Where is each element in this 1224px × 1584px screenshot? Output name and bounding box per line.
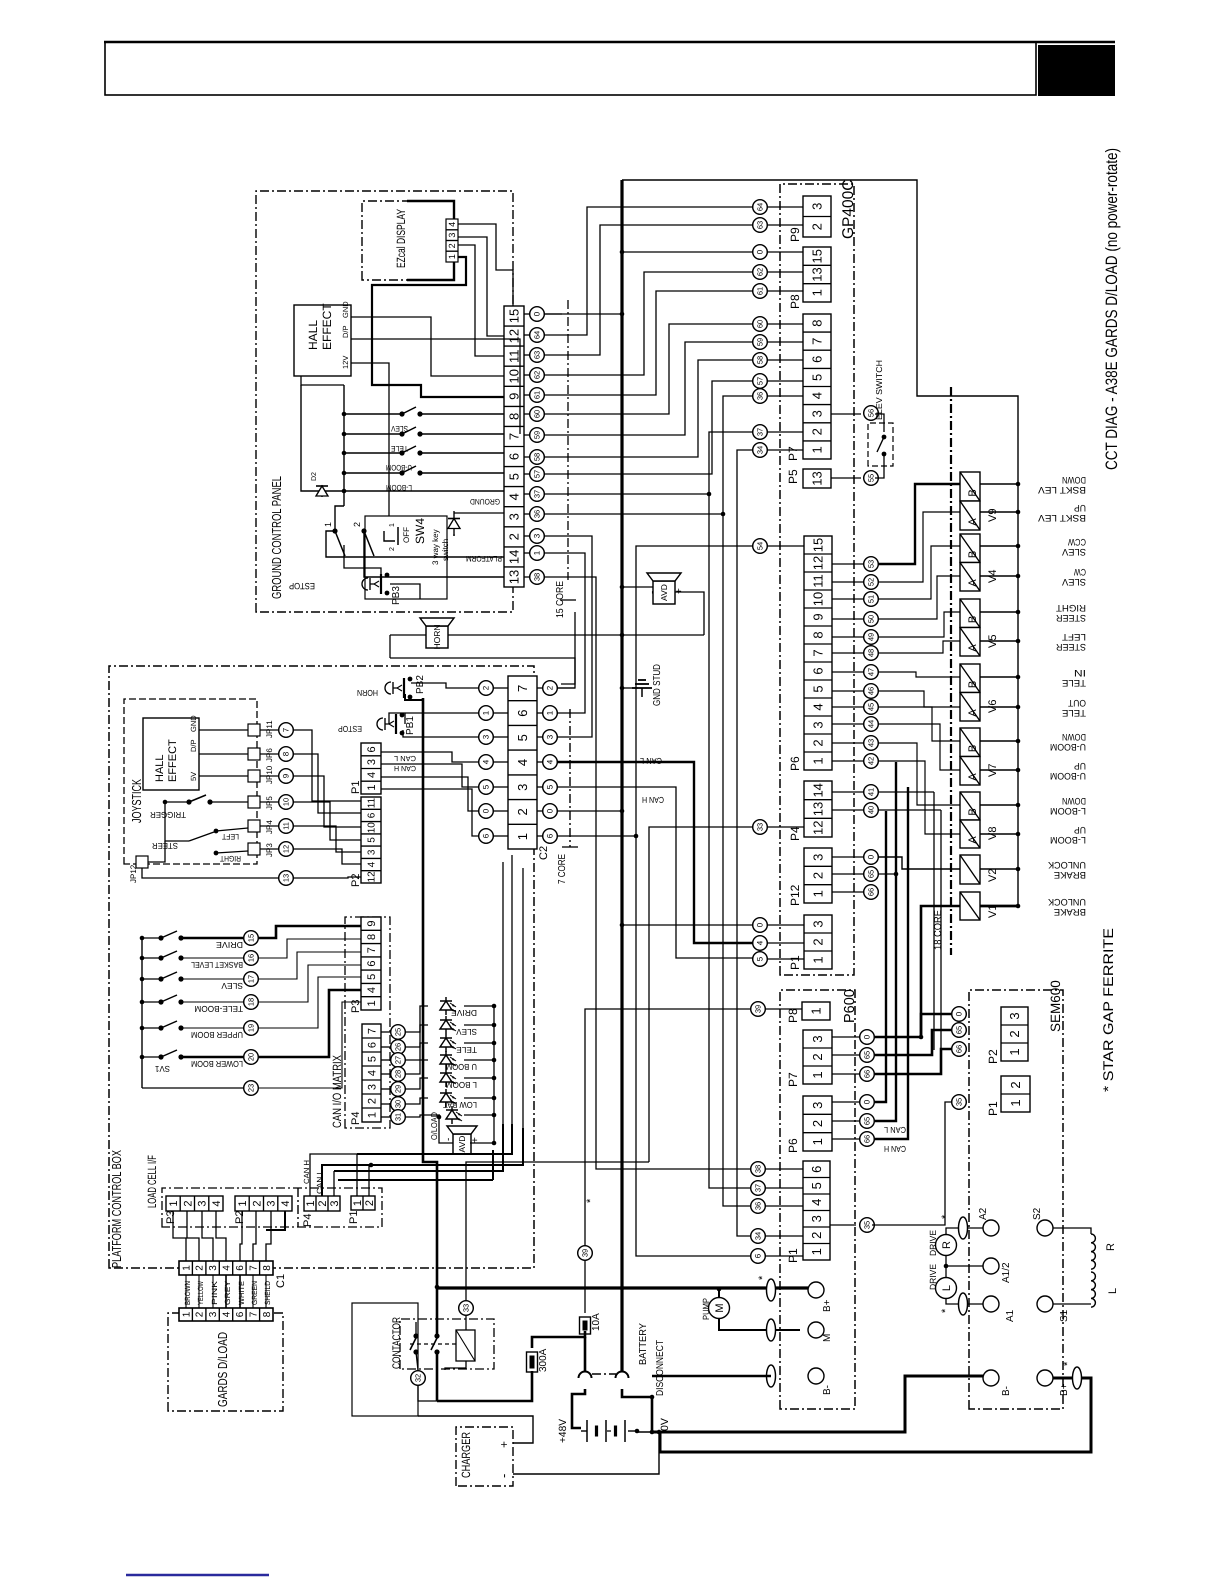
LED bus: [493, 1006, 495, 1143]
brake valve feeds: [879, 857, 960, 869]
svg-text:P1: P1: [986, 1101, 1000, 1116]
svg-text:V9: V9: [987, 509, 999, 522]
svg-text:EFFECT: EFFECT: [320, 303, 334, 350]
svg-text:5: 5: [507, 473, 522, 480]
svg-text:2: 2: [182, 1200, 194, 1206]
svg-text:PLATFORM: PLATFORM: [466, 554, 502, 563]
connector C2: [508, 676, 537, 849]
svg-text:5: 5: [482, 784, 491, 789]
svg-text:2: 2: [447, 243, 457, 248]
svg-text:A2: A2: [978, 1207, 989, 1220]
svg-text:38: 38: [754, 1165, 763, 1173]
estop PB1: [377, 713, 404, 736]
svg-text:4: 4: [366, 987, 378, 993]
svg-text:0: 0: [756, 922, 765, 927]
C1 colour wires: [185, 1275, 187, 1308]
svg-text:B-: B-: [1001, 1386, 1012, 1396]
svg-text:2: 2: [546, 685, 555, 690]
svg-text:4: 4: [211, 1200, 223, 1206]
svg-text:0: 0: [756, 249, 765, 254]
svg-text:TRIGGER: TRIGGER: [150, 810, 186, 820]
svg-text:2: 2: [809, 1232, 824, 1239]
svg-text:CCT DIAG - A38E GARDS D/LOAD (: CCT DIAG - A38E GARDS D/LOAD (no power-r…: [1103, 148, 1121, 470]
svg-text:0: 0: [863, 1034, 872, 1039]
svg-text:CAN H: CAN H: [884, 1144, 906, 1154]
svg-text:4: 4: [447, 222, 457, 227]
svg-text:JOYSTICK: JOYSTICK: [129, 779, 144, 823]
connector load cell P3: [166, 1196, 223, 1211]
GP400C controller enclosure: [780, 184, 854, 975]
ground panel wire numbers: [530, 307, 545, 322]
svg-text:ESTOP: ESTOP: [289, 581, 315, 591]
estop PB3: [362, 573, 389, 596]
svg-text:1: 1: [811, 956, 826, 963]
svg-text:2: 2: [367, 1098, 379, 1104]
hall to switch bus link: [301, 376, 344, 385]
svg-text:38: 38: [533, 573, 542, 581]
svg-text:P5: P5: [786, 469, 800, 484]
svg-text:8: 8: [366, 934, 378, 940]
svg-text:44: 44: [867, 720, 876, 728]
CAN H net 5: [557, 787, 753, 958]
switch L-BOOM (ground): [344, 472, 400, 474]
C2 wire numbers right: [543, 681, 558, 696]
gnd stud: [620, 686, 625, 691]
P600 right wire numbers: [860, 1030, 875, 1045]
header bar: [105, 42, 1036, 95]
svg-text:3: 3: [809, 1215, 824, 1222]
svg-text:37: 37: [756, 428, 765, 436]
svg-text:GROUND: GROUND: [470, 497, 500, 506]
svg-text:5: 5: [367, 837, 378, 843]
svg-text:GREEN: GREEN: [250, 1281, 259, 1305]
svg-text:P9: P9: [788, 227, 802, 242]
svg-text:3: 3: [266, 1200, 278, 1206]
svg-text:7 CORE: 7 CORE: [557, 854, 568, 884]
svg-text:31: 31: [394, 1113, 403, 1121]
svg-text:4: 4: [507, 493, 522, 500]
svg-text:64: 64: [533, 331, 542, 339]
svg-text:LOAD CELL I/F: LOAD CELL I/F: [145, 1155, 159, 1208]
svg-text:0: 0: [533, 311, 542, 316]
net 6: [557, 836, 750, 1256]
svg-text:7: 7: [249, 1311, 260, 1317]
svg-text:5: 5: [811, 685, 826, 692]
GP400C right wire numbers: [864, 406, 879, 421]
svg-text:3: 3: [1007, 1012, 1022, 1019]
svg-text:55: 55: [867, 474, 876, 482]
svg-text:HORN: HORN: [357, 688, 378, 698]
valve V4: [960, 534, 980, 563]
connector ground panel 15-way: [504, 306, 524, 587]
svg-text:7: 7: [810, 338, 825, 345]
P600 P6/P7 right jogs to SEM600: [921, 1014, 951, 1037]
svg-text:25: 25: [394, 1028, 403, 1036]
svg-text:46: 46: [867, 687, 876, 695]
svg-text:1: 1: [323, 522, 333, 527]
connector load cell P4: [304, 1196, 341, 1211]
net 54: [636, 546, 753, 836]
valve V5: [960, 599, 980, 628]
contactor contacts: [436, 1287, 439, 1336]
svg-text:DOWN: DOWN: [1062, 731, 1086, 742]
connector P600 P6: [803, 1096, 832, 1151]
svg-text:20: 20: [247, 1053, 256, 1061]
svg-text:15: 15: [811, 538, 826, 552]
svg-text:1: 1: [366, 785, 378, 791]
svg-text:6: 6: [809, 1166, 824, 1173]
svg-text:13: 13: [810, 471, 825, 485]
svg-text:36: 36: [533, 510, 542, 518]
svg-text:-: -: [443, 1138, 454, 1141]
svg-text:1: 1: [810, 289, 825, 296]
15 core cable boundary: [567, 300, 569, 580]
svg-text:15: 15: [247, 934, 256, 942]
svg-text:28: 28: [394, 1070, 403, 1078]
valve V1 brake: [960, 892, 980, 920]
svg-text:3: 3: [329, 1200, 341, 1206]
connector C1 upper: [179, 1261, 273, 1275]
svg-text:M: M: [714, 1303, 726, 1312]
svg-text:*: *: [585, 1198, 597, 1203]
valve V7: [960, 728, 980, 757]
wire staircase ground to GP400C: [544, 207, 753, 335]
svg-text:7: 7: [367, 1028, 379, 1034]
svg-text:P2: P2: [986, 1049, 1000, 1064]
svg-text:EFFECT: EFFECT: [167, 739, 179, 782]
svg-text:1: 1: [810, 446, 825, 453]
svg-text:L BOOM: L BOOM: [446, 1080, 477, 1090]
svg-text:CHARGER: CHARGER: [459, 1432, 473, 1478]
svg-text:29: 29: [394, 1085, 403, 1093]
svg-text:2: 2: [811, 739, 826, 746]
svg-text:HALL: HALL: [154, 754, 166, 782]
svg-text:13: 13: [282, 874, 291, 882]
svg-text:6: 6: [546, 833, 555, 838]
svg-text:39: 39: [581, 1249, 590, 1257]
svg-text:3: 3: [533, 533, 542, 538]
svg-text:U BOOM: U BOOM: [446, 1062, 477, 1072]
svg-text:36: 36: [756, 392, 765, 400]
svg-text:1: 1: [366, 1000, 378, 1006]
svg-text:D/P: D/P: [341, 325, 350, 338]
svg-text:3: 3: [482, 734, 491, 739]
svg-text:GND: GND: [341, 301, 350, 318]
svg-text:7: 7: [515, 685, 530, 692]
connector GP400C P8: [803, 247, 831, 302]
svg-text:14: 14: [811, 783, 826, 797]
svg-text:SW4: SW4: [413, 518, 427, 544]
svg-text:P2: P2: [350, 874, 362, 887]
svg-text:2: 2: [364, 1200, 376, 1206]
svg-text:51: 51: [867, 595, 876, 603]
svg-text:2: 2: [1007, 1030, 1022, 1037]
valve V6: [960, 664, 980, 693]
svg-text:15: 15: [810, 249, 825, 263]
svg-text:4: 4: [809, 1199, 824, 1206]
svg-text:23: 23: [247, 1084, 256, 1092]
svg-text:V8: V8: [987, 827, 999, 840]
svg-text:A: A: [967, 579, 979, 587]
svg-text:BROWN: BROWN: [183, 1281, 192, 1305]
AVD sounder (centre): [647, 573, 681, 604]
svg-text:5: 5: [366, 974, 378, 980]
svg-text:DRIVE: DRIVE: [928, 1230, 938, 1256]
svg-text:1: 1: [546, 710, 555, 715]
svg-text:JP6: JP6: [265, 748, 274, 762]
svg-text:LOWER BOOM: LOWER BOOM: [191, 1059, 243, 1069]
joystick JP terminals: [248, 724, 260, 736]
svg-text:B: B: [967, 681, 979, 688]
svg-text:PB2: PB2: [415, 675, 426, 694]
svg-text:65: 65: [867, 870, 876, 878]
svg-text:SLEV: SLEV: [456, 1027, 477, 1037]
connector SEM600 P2: [1001, 1007, 1028, 1061]
switch SLEV: [140, 977, 145, 982]
svg-text:6: 6: [235, 1311, 246, 1317]
svg-text:4: 4: [222, 1311, 233, 1317]
svg-text:L: L: [941, 1285, 953, 1291]
svg-text:6: 6: [754, 1253, 763, 1258]
svg-text:4: 4: [546, 759, 555, 764]
svg-text:4: 4: [222, 1265, 233, 1271]
net 1 / net 3 to C2: [544, 553, 585, 713]
svg-text:P6: P6: [788, 756, 802, 771]
svg-text:UPPER BOOM: UPPER BOOM: [191, 1030, 243, 1040]
net 35: [872, 1102, 951, 1225]
svg-text:GROUND CONTROL PANEL: GROUND CONTROL PANEL: [269, 476, 284, 599]
svg-text:9: 9: [366, 921, 378, 927]
svg-text:P8: P8: [788, 294, 802, 309]
svg-text:2: 2: [1008, 1081, 1023, 1088]
svg-text:JP12: JP12: [129, 864, 138, 883]
svg-text:P7: P7: [786, 446, 800, 461]
steer left contact: [216, 828, 248, 831]
svg-text:30: 30: [394, 1100, 403, 1108]
key switch OFF contact: [384, 531, 395, 541]
LED DRIVE: [381, 1031, 390, 1033]
connector P600 P8: [802, 1002, 830, 1020]
svg-text:16: 16: [247, 954, 256, 962]
svg-text:2: 2: [195, 1311, 206, 1317]
svg-text:2: 2: [482, 685, 491, 690]
svg-text:B: B: [967, 551, 979, 558]
svg-text:2: 2: [515, 808, 530, 815]
svg-text:A: A: [967, 709, 979, 717]
connector load cell P2: [235, 1196, 292, 1211]
connector EZcal pins: [446, 219, 458, 262]
svg-text:2: 2: [352, 522, 362, 527]
connector C1 lower: [179, 1308, 273, 1321]
svg-text:A1: A1: [1005, 1309, 1016, 1322]
svg-text:5: 5: [810, 374, 825, 381]
svg-text:5: 5: [367, 1056, 379, 1062]
B+ rail: [437, 1286, 808, 1289]
svg-text:DOWN: DOWN: [1062, 795, 1086, 806]
svg-text:V6: V6: [987, 700, 999, 713]
elev switch: [868, 423, 893, 466]
net 37 riser: [544, 493, 709, 495]
svg-text:1: 1: [811, 757, 826, 764]
svg-text:66: 66: [867, 888, 876, 896]
svg-text:JP5: JP5: [265, 796, 274, 810]
svg-text:3: 3: [208, 1265, 219, 1271]
svg-text:10: 10: [282, 798, 291, 806]
svg-text:1: 1: [515, 833, 530, 840]
svg-text:B: B: [967, 808, 979, 815]
load cell to C1: [173, 1211, 186, 1261]
svg-text:B+: B+: [1059, 1383, 1070, 1396]
trigger switch: [165, 801, 187, 803]
svg-text:62: 62: [533, 371, 542, 379]
svg-text:1: 1: [367, 1112, 379, 1118]
svg-text:35: 35: [955, 1098, 964, 1106]
valve common rail: [622, 180, 1018, 906]
svg-text:57: 57: [756, 377, 765, 385]
field coils: [1053, 1228, 1091, 1234]
svg-text:5: 5: [756, 956, 765, 961]
svg-text:CAN L: CAN L: [640, 756, 662, 766]
pressure switch drops: [879, 791, 934, 793]
svg-text:8: 8: [282, 751, 291, 756]
LED SLEV: [381, 1046, 390, 1048]
svg-text:3: 3: [515, 784, 530, 791]
connector matrix P4: [362, 1024, 381, 1122]
key switch wiring: [326, 531, 504, 557]
svg-text:45: 45: [867, 703, 876, 711]
svg-text:64: 64: [756, 203, 765, 211]
svg-text:37: 37: [754, 1184, 763, 1192]
svg-text:B-: B-: [822, 1385, 833, 1395]
svg-text:3: 3: [197, 1200, 209, 1206]
svg-text:P1: P1: [788, 955, 802, 970]
ground switch bus: [343, 385, 345, 506]
load cell interface box: [162, 1188, 382, 1227]
CAN L net 4: [557, 762, 753, 943]
CAN risers to P600: [879, 873, 896, 875]
svg-text:EZcal DISPLAY: EZcal DISPLAY: [394, 209, 408, 268]
svg-text:3 way key: 3 way key: [431, 529, 440, 565]
svg-text:UP: UP: [1074, 824, 1086, 835]
switch BASKET LEVEL: [140, 956, 145, 961]
svg-text:61: 61: [533, 391, 542, 399]
connector GP400C P12: [804, 848, 832, 903]
svg-text:12V: 12V: [341, 356, 350, 369]
svg-text:*: *: [940, 1308, 952, 1313]
svg-text:0: 0: [955, 1011, 964, 1016]
svg-text:2: 2: [811, 938, 826, 945]
switch LOWER BOOM: [140, 1055, 145, 1060]
svg-text:19: 19: [247, 1024, 256, 1032]
svg-text:26: 26: [394, 1043, 403, 1051]
svg-text:39: 39: [754, 1005, 763, 1013]
svg-text:12: 12: [282, 845, 291, 853]
svg-text:1: 1: [181, 1265, 192, 1271]
svg-text:P1: P1: [350, 781, 362, 794]
net 0 via bus: [544, 313, 622, 315]
svg-text:D/P: D/P: [189, 739, 198, 752]
svg-text:UP: UP: [1074, 502, 1086, 513]
svg-text:P3: P3: [165, 1211, 177, 1224]
svg-text:6: 6: [366, 746, 378, 752]
svg-text:BATTERY: BATTERY: [638, 1323, 649, 1365]
LED U BOOM: [381, 1073, 390, 1075]
svg-text:4: 4: [810, 392, 825, 399]
matrix wire numbers: [391, 1025, 406, 1040]
svg-text:4: 4: [756, 940, 765, 945]
svg-text:CCW: CCW: [1068, 536, 1086, 547]
svg-text:V2: V2: [987, 869, 999, 882]
svg-text:50: 50: [867, 615, 876, 623]
svg-text:*: *: [1062, 1361, 1074, 1366]
svg-text:JP10: JP10: [265, 765, 274, 784]
JP12 wire to 13: [142, 868, 278, 878]
GP400C P6 row stubs: [832, 563, 864, 565]
valve V9: [960, 472, 980, 501]
svg-text:11: 11: [367, 797, 378, 808]
svg-text:PB3: PB3: [391, 586, 402, 605]
svg-text:A: A: [967, 518, 979, 526]
svg-text:TELE-BOOM: TELE-BOOM: [194, 1004, 243, 1014]
svg-text:-: -: [496, 1474, 511, 1478]
JP12 terminal: [136, 856, 148, 868]
svg-text:66: 66: [863, 1070, 872, 1078]
GP400C P9/P8/P7 stubs: [768, 206, 803, 208]
svg-text:UNLOCK: UNLOCK: [1047, 859, 1086, 870]
svg-text:1: 1: [1008, 1099, 1023, 1106]
svg-text:0: 0: [482, 808, 491, 813]
SEM600 drive motors: [936, 1235, 957, 1256]
svg-text:2: 2: [317, 1200, 329, 1206]
diode D1: [453, 511, 455, 536]
svg-text:DOWN: DOWN: [1062, 474, 1086, 485]
svg-text:5V: 5V: [189, 772, 198, 781]
svg-text:11: 11: [811, 574, 826, 588]
svg-text:40: 40: [867, 806, 876, 814]
svg-text:3: 3: [366, 759, 378, 765]
svg-text:BASKET LEVEL: BASKET LEVEL: [191, 960, 243, 970]
svg-text:P4: P4: [350, 1112, 362, 1125]
connector P600 P7: [803, 1030, 832, 1084]
platform switch wire numbers: [244, 931, 259, 946]
P600 terminals B+ M B-: [808, 1282, 824, 1298]
contactor outer loop: [352, 1303, 418, 1416]
svg-text:1: 1: [810, 1071, 825, 1078]
svg-text:CAN L: CAN L: [884, 1125, 906, 1135]
svg-text:65: 65: [863, 1117, 872, 1125]
svg-text:7: 7: [811, 649, 826, 656]
svg-text:P4: P4: [788, 826, 802, 841]
svg-text:8: 8: [262, 1265, 273, 1271]
footer blue rule: [126, 1574, 269, 1576]
connector GP400C P6: [804, 536, 832, 770]
P600 motor controller enclosure: [780, 990, 855, 1409]
svg-text:4: 4: [280, 1200, 292, 1206]
svg-text:SEM600: SEM600: [1048, 980, 1063, 1032]
svg-text:AVD: AVD: [457, 1136, 467, 1153]
svg-text:PLATFORM CONTROL BOX: PLATFORM CONTROL BOX: [109, 1150, 124, 1268]
svg-text:53: 53: [867, 560, 876, 568]
svg-text:59: 59: [533, 431, 542, 439]
svg-text:18: 18: [247, 998, 256, 1006]
svg-text:3: 3: [208, 1311, 219, 1317]
steer switch: [165, 802, 189, 841]
svg-text:7: 7: [282, 727, 291, 732]
svg-text:1: 1: [305, 1200, 317, 1206]
svg-text:+: +: [497, 1441, 511, 1448]
circle 54 stub: [768, 545, 804, 547]
EZcal display unit: [362, 201, 454, 280]
